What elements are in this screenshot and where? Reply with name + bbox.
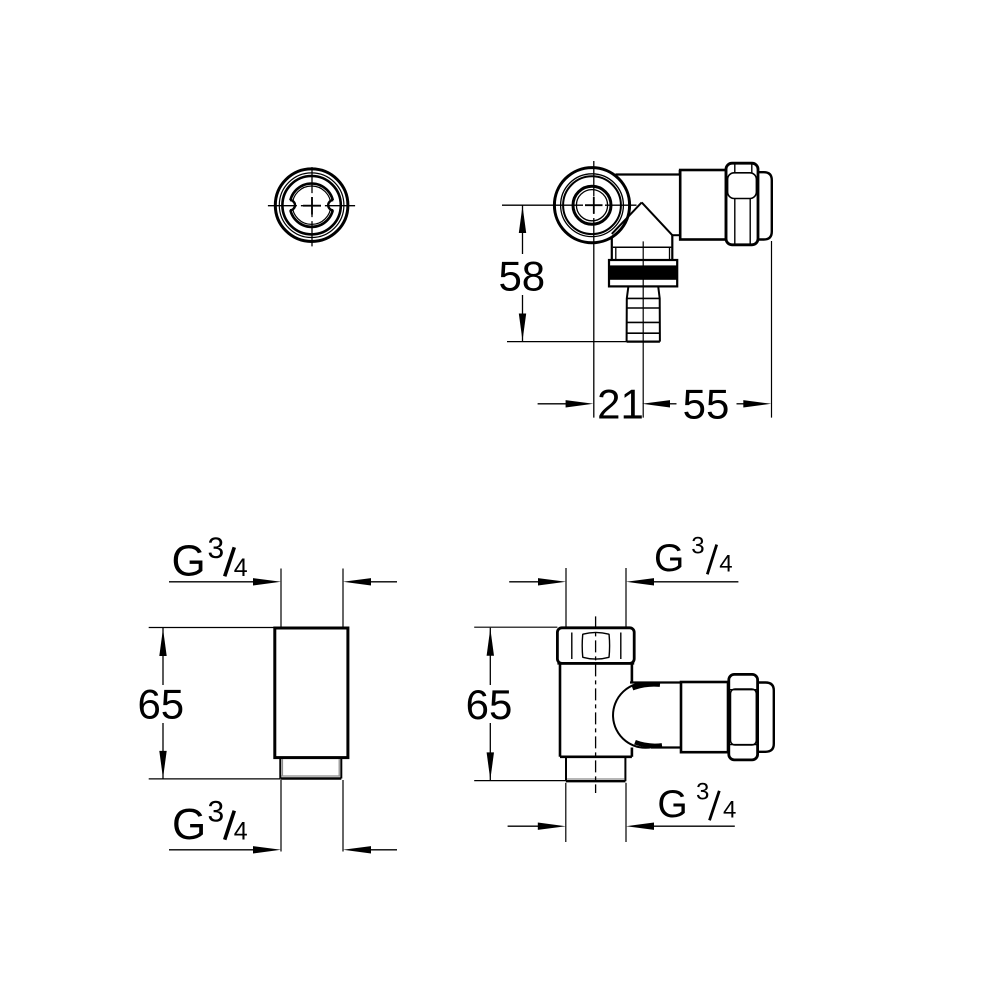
- svg-text:G: G: [657, 783, 687, 826]
- dim 58 arrows: [519, 206, 526, 233]
- dim 65 line: [489, 628, 491, 780]
- hex nut: [557, 628, 634, 664]
- dim 21 arrow right tail: [670, 403, 677, 405]
- collar inner lines: [615, 247, 617, 260]
- svg-text:3: 3: [696, 778, 709, 805]
- right notch erase: [328, 200, 338, 210]
- dim 21 arrow right: [642, 400, 670, 407]
- connector hex facet: [731, 689, 757, 745]
- dim line G3/4 bottom: [169, 849, 253, 851]
- svg-text:G: G: [172, 536, 206, 585]
- outer circle: [275, 169, 348, 242]
- hex top facet: [728, 173, 757, 199]
- thin ring: [279, 173, 344, 238]
- nut facet lines: [571, 633, 573, 660]
- svg-text:G: G: [654, 537, 684, 580]
- neck shadow bottom: [635, 742, 662, 746]
- barb ridges: [627, 297, 660, 299]
- neck shadow top: [633, 684, 661, 688]
- inner circle: [290, 184, 333, 227]
- dim 21 tail: [538, 403, 567, 405]
- flange: [609, 260, 677, 286]
- dim 21 arrow left: [566, 400, 594, 407]
- hex lower facet lines: [734, 199, 736, 244]
- right notch arc: [328, 200, 333, 210]
- barb right side: [658, 286, 660, 341]
- middle circle: [282, 176, 340, 234]
- ext line 55 right: [771, 241, 773, 418]
- inner thin circle: [292, 186, 330, 224]
- body left edge: [559, 663, 562, 756]
- svg-text:58: 58: [498, 252, 545, 299]
- dim 65 line: [162, 628, 164, 779]
- svg-text:3: 3: [691, 532, 704, 559]
- ext lines G3/4 bottom right: [565, 783, 567, 842]
- inlet face outer circle: [554, 168, 629, 243]
- svg-text:3: 3: [208, 796, 225, 829]
- vertical centerline: [311, 167, 313, 246]
- collar top line: [613, 246, 672, 248]
- dim 65 ext lines: [149, 627, 275, 629]
- svg-text:4: 4: [723, 796, 736, 823]
- dim 58 line: [522, 205, 524, 341]
- svg-text:3: 3: [208, 532, 225, 565]
- body right edge upper: [631, 663, 634, 682]
- dim line G3/4 top right: [509, 581, 538, 583]
- dim 65 ext lines: [474, 626, 557, 628]
- ring: [563, 176, 621, 234]
- left notch erase: [285, 200, 295, 210]
- dim 55 arrow right: [743, 400, 771, 407]
- neck dome arc: [613, 683, 652, 748]
- neck top line: [630, 681, 681, 683]
- horizontal centerline / ext line 58: [502, 204, 637, 206]
- svg-text:4: 4: [234, 554, 248, 582]
- svg-text:65: 65: [137, 681, 184, 728]
- svg-text:65: 65: [466, 681, 513, 728]
- hex cap: [726, 163, 758, 245]
- body bottom line: [560, 755, 632, 758]
- body right edge lower: [631, 748, 634, 757]
- svg-text:G: G: [172, 800, 206, 849]
- o-ring band: [609, 265, 677, 279]
- connector end cap: [758, 683, 774, 752]
- step to body: [672, 234, 680, 236]
- chamfer diagonal right: [642, 202, 673, 235]
- dim line G3/4 bottom right: [508, 825, 539, 827]
- dim 55 tail: [737, 403, 745, 405]
- svg-text:21: 21: [597, 380, 644, 427]
- dashed centerline: [595, 616, 597, 793]
- end cap: [758, 172, 772, 239]
- connector body: [681, 682, 728, 752]
- barb left side: [627, 286, 629, 341]
- nut bottom line: [557, 662, 634, 664]
- svg-text:4: 4: [719, 550, 732, 577]
- collar left edge: [611, 238, 613, 261]
- body rect: [680, 170, 726, 240]
- center cross: [585, 204, 603, 206]
- chamfer diagonal left: [612, 202, 642, 234]
- horizontal centerline: [268, 205, 355, 207]
- innermost circle: [576, 190, 607, 221]
- barb bottom: [627, 341, 660, 343]
- body top line: [616, 173, 680, 175]
- dim 58 bottom ext line: [507, 341, 627, 343]
- center cross: [303, 205, 321, 207]
- svg-text:55: 55: [683, 381, 730, 428]
- collar right edge: [671, 235, 673, 260]
- hex top edge lines: [734, 164, 736, 174]
- neck bottom line: [651, 746, 681, 748]
- shaft centerline: [642, 241, 644, 417]
- dim 58 text bg: [497, 254, 547, 295]
- ext lines G3/4 bottom: [280, 780, 282, 852]
- inner circle: [573, 186, 611, 224]
- bottom collar: [279, 758, 281, 779]
- left notch arc: [290, 200, 295, 210]
- bottom collar: [565, 757, 567, 781]
- cylinder body: [275, 628, 348, 758]
- vertical centerline / ext line 21: [593, 161, 595, 418]
- ext lines G3/4 top: [280, 569, 282, 628]
- dim line G3/4 top: [169, 581, 253, 583]
- connector hex: [729, 674, 758, 760]
- ring thin: [561, 174, 624, 237]
- ext lines G3/4 top right: [565, 568, 567, 627]
- svg-text:4: 4: [234, 817, 248, 845]
